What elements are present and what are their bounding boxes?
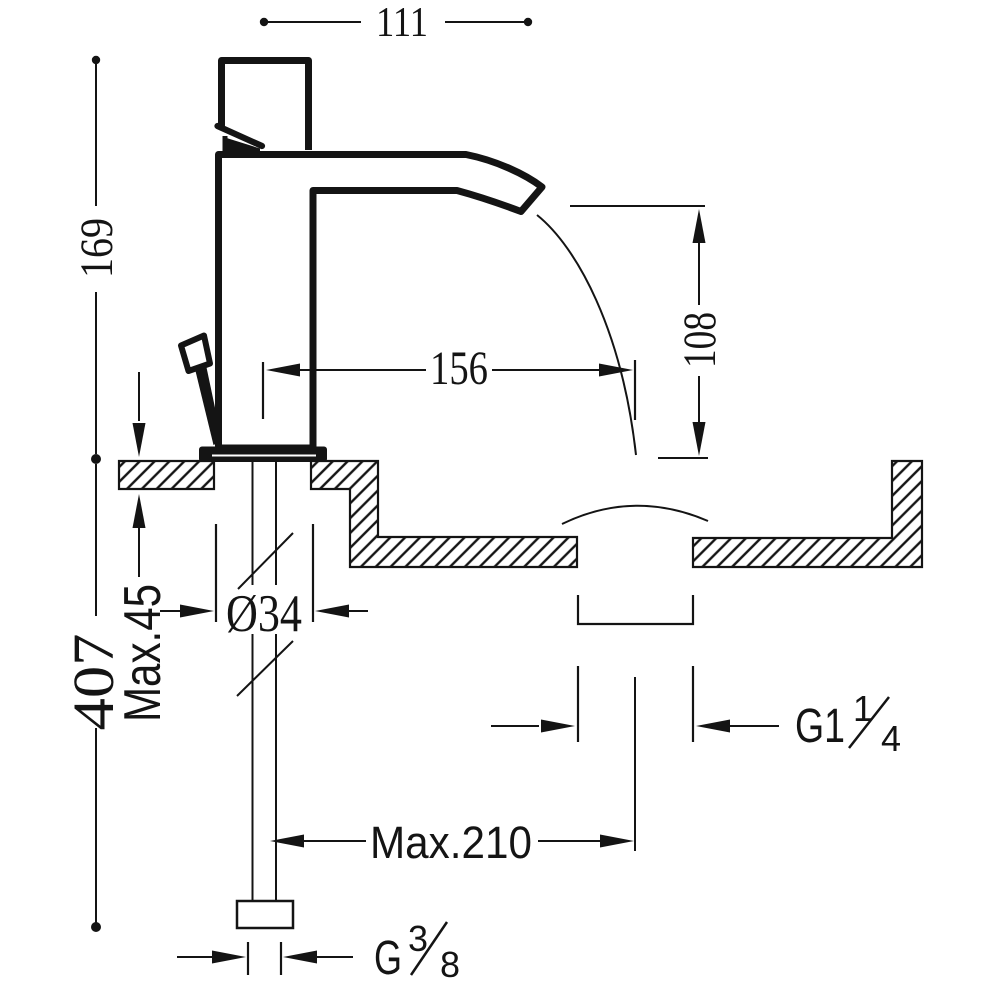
svg-text:156: 156 (430, 342, 488, 395)
dim 108 (570, 205, 705, 207)
drain flange bracket (578, 595, 693, 624)
handle knob (top square) (222, 61, 309, 151)
svg-text:Max.210: Max.210 (370, 817, 532, 868)
svg-text:G1: G1 (795, 700, 845, 753)
svg-text:108: 108 (674, 312, 726, 368)
drain tick right (692, 666, 694, 742)
water stream arc (537, 215, 636, 455)
svg-text:Max.45: Max.45 (114, 584, 172, 722)
dim G1 1/4 (491, 725, 539, 727)
supply nut (237, 901, 293, 928)
handle lever lower edge (225, 138, 260, 154)
svg-text:G: G (374, 932, 402, 985)
dim 111 top (260, 18, 268, 26)
svg-text:111: 111 (376, 0, 428, 46)
dim G 3/8 (177, 956, 214, 958)
dim 169 left (92, 56, 100, 64)
basin water surface arc (562, 506, 708, 524)
pipe break slash lower (237, 641, 293, 696)
countertop/basin left step (hatched) (311, 461, 577, 567)
pipe break slash upper (238, 533, 293, 589)
side control knob (tilted square) (181, 336, 210, 372)
svg-text:Ø34: Ø34 (226, 585, 302, 643)
drain center line (634, 677, 636, 851)
dim Max.45 arrows (138, 372, 140, 421)
dim Max.210 (270, 835, 304, 848)
dim Ø34 (215, 524, 217, 622)
supply pipe left line (252, 462, 254, 585)
countertop/basin right step (hatched) (693, 461, 922, 567)
drain tick left (577, 666, 579, 742)
svg-text:4: 4 (881, 718, 901, 759)
faucet body and spout outline (219, 155, 543, 449)
svg-text:169: 169 (71, 218, 123, 278)
supply pipe right line (275, 462, 277, 585)
base flange (199, 447, 327, 463)
svg-text:8: 8 (440, 944, 460, 985)
handle lever stub (223, 136, 228, 152)
side control stem (195, 365, 222, 445)
handle chamfer lever edge (218, 126, 263, 146)
dim 407 left (95, 464, 97, 616)
countertop left strip (hatched) (119, 461, 214, 489)
dim 156 (262, 362, 264, 419)
